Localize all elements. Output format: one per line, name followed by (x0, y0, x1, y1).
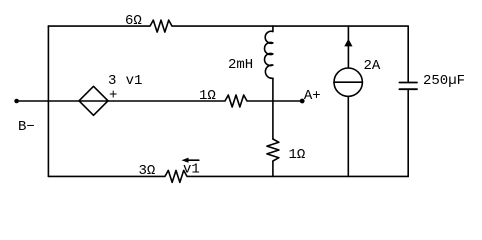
svg-text:A+: A+ (304, 88, 321, 104)
svg-text:3Ω: 3Ω (139, 163, 156, 179)
svg-text:1Ω: 1Ω (199, 88, 216, 104)
svg-text:+: + (109, 88, 117, 104)
svg-text:B−: B− (18, 119, 35, 135)
svg-text:250µF: 250µF (423, 73, 465, 89)
svg-text:v1: v1 (126, 73, 143, 89)
svg-text:2mH: 2mH (228, 57, 253, 73)
svg-text:6Ω: 6Ω (125, 13, 142, 29)
svg-text:v1: v1 (183, 162, 200, 178)
svg-text:1Ω: 1Ω (289, 147, 306, 163)
svg-text:2A: 2A (364, 58, 381, 74)
svg-text:3: 3 (108, 73, 116, 89)
